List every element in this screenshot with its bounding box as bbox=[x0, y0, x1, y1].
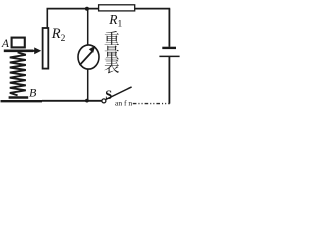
wire top bus left (R2 top to R1 left) bbox=[47, 8, 99, 10]
label 表 (weight meter text 3) bbox=[104, 59, 119, 74]
spring (conductive coil) bbox=[10, 52, 26, 95]
wire right side lower bbox=[168, 57, 170, 104]
svg-text:S: S bbox=[105, 88, 112, 102]
node junction top bbox=[85, 7, 89, 11]
spring top plate bbox=[4, 49, 33, 52]
switch S pivot bbox=[102, 99, 106, 103]
wiper arrow of R2 bbox=[28, 47, 41, 54]
wire bottom ground run (left, thick) bbox=[1, 100, 43, 102]
svg-text:an f n: an f n bbox=[115, 99, 132, 108]
dashed wire bottom right bbox=[133, 103, 170, 105]
spring base plate bbox=[9, 96, 29, 98]
resistor R1 bbox=[99, 5, 135, 11]
wire meter branch bottom bbox=[87, 69, 89, 101]
node junction bottom bbox=[85, 99, 89, 103]
switch S blade bbox=[106, 87, 132, 100]
meter body (weight meter) bbox=[78, 45, 99, 69]
wire R2 branch drop bbox=[46, 9, 48, 28]
label 重 (weight meter text 1) bbox=[105, 31, 119, 45]
battery plate long (positive) bbox=[159, 55, 179, 57]
block A on spring bbox=[12, 38, 25, 48]
rheostat R2 body bbox=[43, 28, 49, 69]
wire top bus right (R1 right to corner) bbox=[135, 8, 170, 10]
wire meter branch top bbox=[87, 9, 89, 45]
label 量 (weight meter text 2) bbox=[105, 45, 119, 59]
svg-text:B: B bbox=[29, 85, 37, 99]
meter needle bbox=[80, 51, 93, 65]
wire right side upper bbox=[168, 9, 170, 47]
svg-text:A: A bbox=[1, 38, 10, 50]
battery plate short (negative) bbox=[162, 47, 176, 49]
wire bottom run to switch bbox=[42, 100, 102, 102]
meter needle arrowhead bbox=[89, 46, 95, 53]
